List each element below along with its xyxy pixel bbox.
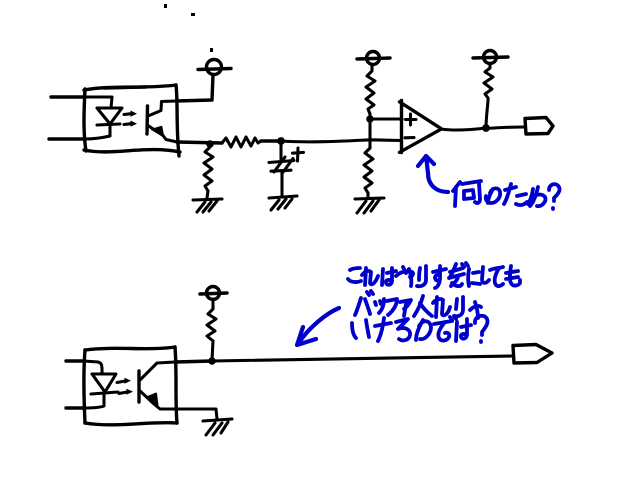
- wire: node N2 down to capacitor C1: [279, 144, 282, 159]
- blue arrow pointing to op-amp U2: [418, 156, 448, 192]
- node N1: [206, 140, 214, 148]
- ground G3: [355, 198, 384, 213]
- capacitor C1: [269, 157, 294, 174]
- connector J2: [513, 345, 552, 364]
- wire: R1 to node N2: [261, 139, 281, 142]
- dagger mark next to C1: [293, 148, 304, 161]
- optocoupler U1 package outline: [84, 85, 180, 156]
- wire: U1 collector to power P1: [176, 75, 213, 101]
- ground G2: [269, 196, 297, 210]
- stray speck 1: [164, 4, 167, 8]
- resistor R3 (upper divider): [366, 65, 375, 114]
- ground G4: [203, 419, 232, 435]
- blue text line 3: いけるのでは?: [352, 316, 487, 342]
- wire: node N5 to connector J2: [212, 356, 512, 361]
- stray speck 3: [210, 48, 213, 52]
- resistor R6 (pull-up): [207, 299, 216, 341]
- wire: R2 to ground G1: [207, 191, 208, 198]
- wire: node N2 to comparator minus input: [281, 140, 401, 142]
- phototransistor Q2 inside U3: [139, 362, 175, 409]
- node N4: [482, 124, 490, 132]
- blue text line 1: これはやりすぎにしても: [348, 263, 520, 288]
- wire: R5 to node N4: [486, 101, 488, 128]
- wire: U3 emitter to ground G4: [175, 409, 217, 419]
- power symbol P3: [473, 51, 508, 64]
- wire: top input to optocoupler U1: [51, 95, 85, 98]
- resistor R2 (pull-down at N1): [204, 147, 213, 191]
- stray speck 2: [191, 13, 195, 16]
- wire: top input to optocoupler U3: [66, 359, 84, 362]
- node N2: [277, 137, 285, 145]
- wire: C1 to ground G2: [280, 172, 283, 196]
- wire: bottom input to optocoupler U3: [66, 406, 84, 409]
- power symbol P2: [357, 52, 390, 65]
- blue arrow pointing to wire of bottom circuit: [297, 308, 339, 345]
- optocoupler U3 package outline: [84, 347, 177, 425]
- resistor R4 (lower divider): [364, 148, 373, 193]
- LED light arrows in U3: [117, 378, 133, 395]
- LED inside U1: [85, 97, 122, 139]
- resistor R1 (series): [222, 137, 261, 147]
- op-amp U2: [400, 101, 442, 153]
- blue text line 2: バッファ入れりゃ: [355, 291, 481, 318]
- wire: R6 to node N5: [212, 341, 213, 360]
- wire: node N4 to connector J1: [486, 127, 525, 129]
- LED light arrows: [124, 111, 137, 127]
- wire: U1 emitter to node N1: [177, 142, 222, 143]
- wire: node N3 to comparator plus input: [370, 114, 402, 119]
- connector J1: [525, 118, 553, 135]
- wire: node N3 down across signal to R4: [368, 119, 371, 148]
- wire: U2 output to node N4: [441, 128, 486, 130]
- node N3: [366, 115, 374, 123]
- node N5: [208, 357, 216, 365]
- resistor R5 (output pull-up): [484, 64, 493, 101]
- wire: R4 to ground G3: [366, 193, 369, 198]
- blue text: 何のため?: [453, 181, 560, 209]
- power symbol P1: [198, 60, 231, 75]
- ground G1: [193, 199, 222, 212]
- phototransistor Q1 inside U1: [147, 101, 177, 142]
- wire: bottom input to optocoupler U1: [49, 137, 85, 140]
- wire: U3 collector to node N5: [175, 361, 212, 362]
- LED inside U3: [84, 361, 118, 408]
- power symbol P4: [200, 287, 227, 300]
